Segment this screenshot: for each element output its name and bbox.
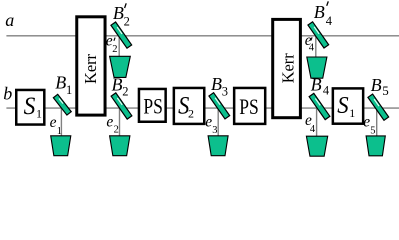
wire: drop from B2' to detector e2': [118, 36, 120, 57]
beam splitter B4: [309, 93, 330, 119]
svg-text:B: B: [371, 75, 382, 95]
svg-text:B: B: [113, 3, 124, 23]
phase shifter box PS (left): [139, 89, 166, 122]
label B5: [371, 75, 389, 98]
svg-text:a: a: [5, 10, 14, 30]
svg-text:e: e: [50, 114, 57, 131]
label B2: [112, 74, 129, 98]
wire: drop from B1 to detector e1: [60, 108, 62, 137]
svg-text:5: 5: [382, 83, 389, 98]
svg-text:b: b: [3, 84, 12, 104]
svg-text:1: 1: [36, 107, 42, 121]
svg-text:e: e: [106, 113, 113, 130]
svg-text:2: 2: [114, 125, 119, 136]
beam splitter B2': [111, 22, 132, 48]
label B1: [55, 72, 72, 96]
svg-text:1: 1: [66, 83, 72, 97]
detector e1: [51, 136, 71, 156]
label e2: [106, 113, 118, 135]
wire: drop from B5 to detector e5: [376, 108, 378, 137]
svg-text:4: 4: [323, 84, 330, 98]
svg-text:3: 3: [222, 84, 228, 98]
label e4': [305, 32, 315, 54]
svg-text:B: B: [55, 72, 66, 92]
Kerr medium box (left): [77, 17, 105, 115]
svg-text:4: 4: [309, 42, 315, 53]
wire: drop from B2 to detector e2: [119, 108, 121, 137]
svg-text:B: B: [311, 74, 322, 94]
svg-text:PS: PS: [239, 95, 258, 119]
svg-text:4: 4: [326, 14, 333, 28]
detector e2: [110, 136, 130, 156]
svg-text:1: 1: [349, 106, 355, 120]
wire: drop from B4 to detector e4: [316, 108, 318, 137]
svg-text:2: 2: [122, 85, 128, 99]
svg-text:2: 2: [124, 14, 130, 28]
detector e4': [307, 57, 327, 78]
svg-text:S: S: [337, 92, 348, 119]
svg-text:2: 2: [112, 44, 117, 55]
svg-text:e: e: [363, 114, 370, 131]
label e1: [50, 114, 62, 137]
label e5: [363, 114, 375, 137]
detector e4: [306, 136, 327, 156]
squeezer box S1 (right): [333, 88, 363, 123]
detector e5: [366, 136, 385, 156]
beam splitter B1: [53, 94, 71, 115]
phase shifter box PS (right): [234, 88, 265, 124]
beam splitter B4': [308, 22, 329, 48]
squeezer box S1 (left): [16, 90, 44, 125]
squeezer box S2: [174, 88, 204, 124]
svg-text:B: B: [314, 2, 325, 22]
svg-text:Kerr: Kerr: [81, 53, 100, 84]
Kerr medium box (right): [273, 19, 301, 117]
svg-text:PS: PS: [143, 95, 163, 119]
label e3: [205, 113, 217, 136]
beam splitter B5: [368, 94, 389, 120]
svg-text:e: e: [205, 113, 212, 130]
svg-text:B: B: [112, 74, 123, 94]
beam splitter B2: [111, 93, 132, 119]
wire b (bottom rail): [6, 107, 399, 109]
wire: drop from B4' to detector e4': [315, 36, 317, 58]
label B4: [311, 74, 330, 97]
svg-text:2: 2: [188, 106, 194, 120]
detector e3: [208, 136, 228, 156]
label e2': [106, 32, 118, 55]
svg-text:S: S: [24, 93, 36, 120]
beam splitter B3: [209, 93, 230, 119]
label B2': [113, 3, 130, 28]
svg-text:1: 1: [57, 126, 62, 137]
label e4: [305, 112, 316, 135]
svg-text:5: 5: [370, 125, 375, 136]
wire a (top rail): [6, 35, 399, 37]
label B4': [314, 1, 333, 27]
svg-text:Kerr: Kerr: [279, 53, 298, 84]
label B3: [211, 74, 228, 98]
svg-text:3: 3: [212, 125, 217, 136]
wire: drop from B3 to detector e3: [217, 108, 219, 137]
detector e2': [110, 56, 131, 77]
svg-text:B: B: [211, 74, 222, 94]
svg-text:4: 4: [310, 124, 316, 135]
